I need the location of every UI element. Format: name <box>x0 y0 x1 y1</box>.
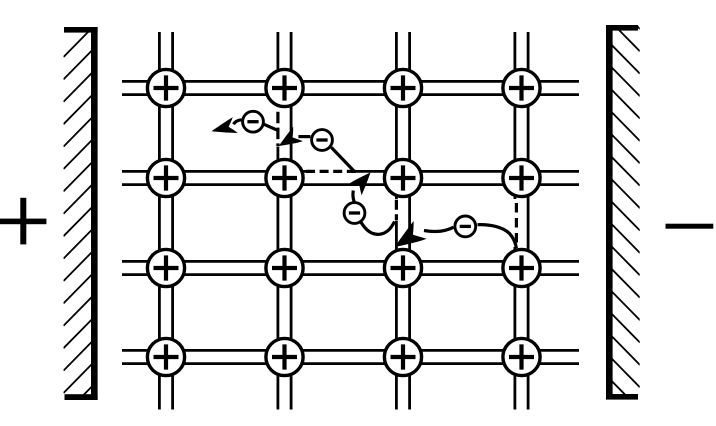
electron e2 (negative charge) <box>312 130 333 151</box>
positive ion row 2 col 3 <box>384 159 421 196</box>
wire: electron e4 trailing curve to column 4 bond <box>478 225 517 249</box>
positive ion row 3 col 4 <box>503 249 540 286</box>
wire: vertical bond column 2 left line <box>276 32 279 107</box>
arrowhead: arrow for electron e3, pointing up-right at ion <box>348 167 377 196</box>
arrowhead: arrow for electron e4, pointing down-left at ion <box>389 221 427 257</box>
arrowhead: arrow for electron e1, pointing left <box>209 117 237 139</box>
positive ion row 1 col 2 <box>266 69 303 106</box>
wire: arrow a3 tail to electron e3 <box>353 191 354 203</box>
positive ion row 2 col 1 <box>147 159 184 196</box>
wire: vertical bond column 1 left line <box>158 32 161 410</box>
wire: horizontal bond row 2 bottom line <box>122 183 579 186</box>
positive ion row 1 col 1 <box>147 69 184 106</box>
positive ion row 3 col 2 <box>266 249 303 286</box>
wire: electron e2 trailing diagonal to junction <box>331 147 354 171</box>
wire: horizontal bond row 2 top line <box>122 170 306 173</box>
positive ion row 2 col 2 <box>266 159 303 196</box>
wire: vertical bond column 2 right line <box>290 32 293 410</box>
positive ion row 2 col 4 <box>503 159 540 196</box>
positive ion row 3 col 3 <box>384 249 421 286</box>
positive ion row 4 col 4 <box>503 338 540 375</box>
wire: vertical bond column 4 left line <box>514 32 517 199</box>
wire: vertical bond column 4 right line <box>527 32 530 410</box>
wire: vertical bond column 3 left line <box>395 32 398 199</box>
wire: electron e4 lead curve to arrow <box>424 227 454 231</box>
wire: electron e1 tail to arrow <box>234 120 242 124</box>
positive electrode plate (left, hatched) <box>64 27 98 426</box>
positive ion row 1 col 3 <box>384 69 421 106</box>
positive ion row 4 col 2 <box>266 338 303 375</box>
positive ion row 4 col 1 <box>147 338 184 375</box>
wire: dashed electron path, row 2 top bond between ions <box>306 170 357 173</box>
wire: horizontal bond row 1 bottom line <box>122 93 579 96</box>
positive ion row 1 col 4 <box>503 69 540 106</box>
wire: horizontal bond row 4 top line <box>122 349 579 352</box>
electron e3 (negative charge) <box>344 203 365 224</box>
wire: horizontal bond row 4 bottom line <box>122 362 579 365</box>
wire: dashed electron path, column 2 left bond <box>276 112 279 146</box>
wire: vertical bond column 3 right line <box>408 32 411 410</box>
electron e4 (negative charge) <box>455 216 476 237</box>
wire: electron e2 tail to arrow <box>298 135 310 138</box>
wire: electron e3 trailing S-curve to dashed bond <box>361 222 395 235</box>
wire: electron e1 trailing link to dashed bond <box>264 124 278 130</box>
positive ion row 3 col 1 <box>147 249 184 286</box>
negative electrode plate (right, hatched) <box>606 0 640 410</box>
wire: vertical bond column 1 right line <box>171 32 174 410</box>
wire: horizontal bond row 3 top line <box>122 260 579 263</box>
positive ion row 4 col 3 <box>384 338 421 375</box>
arrowhead: arrow for electron e2, pointing down-left at bond <box>274 127 303 154</box>
wire: dashed electron path, column 3 left bond <box>395 200 398 220</box>
wire: dashed electron path, column 4 left bond <box>515 203 518 243</box>
electron e1 (negative charge) <box>243 111 264 132</box>
label: minus sign of negative terminal <box>666 224 714 229</box>
wire: horizontal bond row 1 top line <box>122 80 579 83</box>
label: plus sign of positive terminal <box>0 198 46 245</box>
wire: horizontal bond row 3 bottom line <box>122 273 579 276</box>
